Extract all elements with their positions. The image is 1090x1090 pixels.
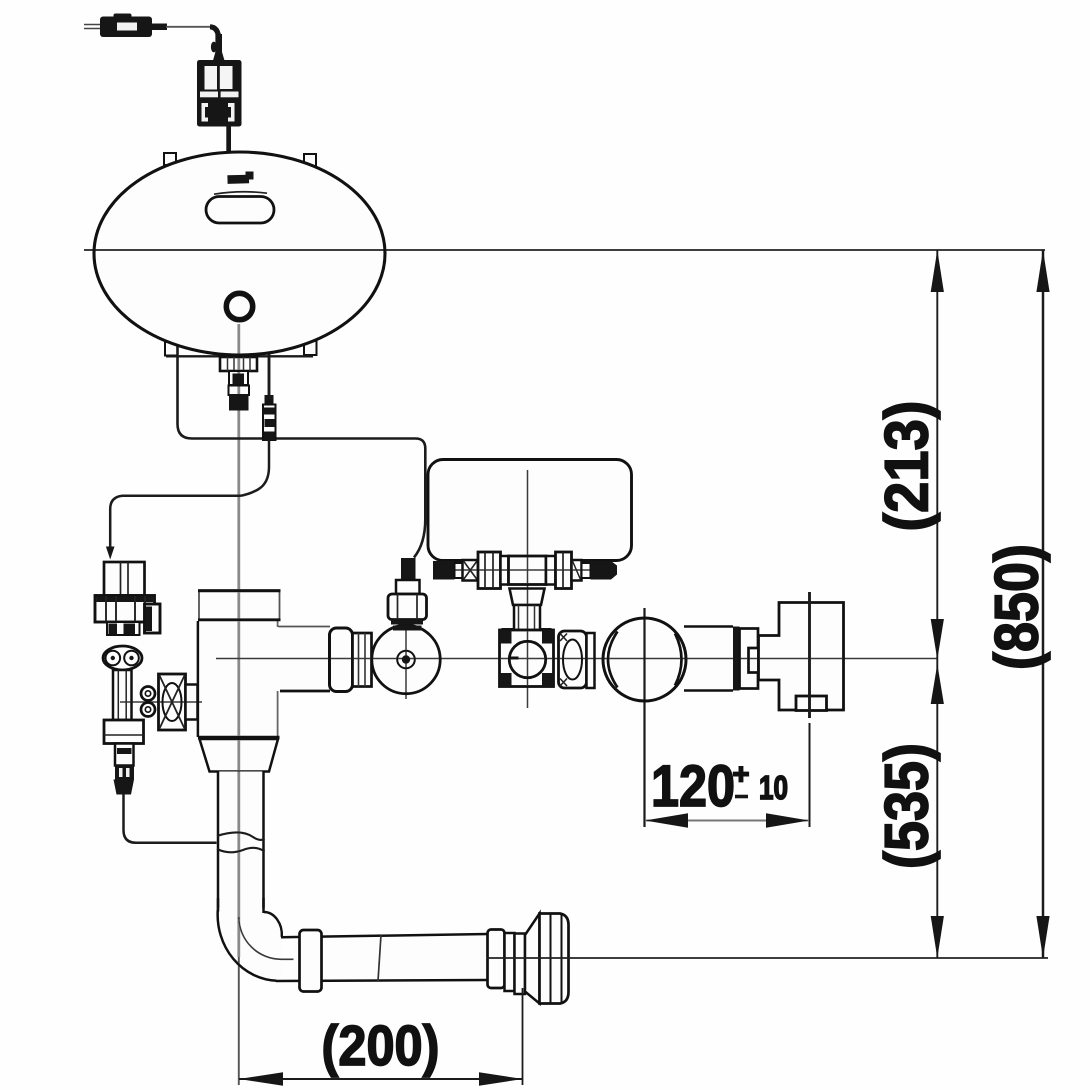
breaker row centerline (433, 569, 617, 571)
bonnet nipple (401, 558, 416, 580)
breaker tee body (509, 556, 547, 585)
breaker union right (572, 560, 582, 581)
packing band (107, 622, 140, 635)
supply threads (115, 766, 134, 780)
label tolerance minus (735, 795, 748, 799)
dimension line (213)/(535) (931, 250, 944, 958)
wire to solenoid valve (110, 440, 269, 547)
breaker band left2 (501, 556, 509, 585)
extension line flange (522, 988, 524, 1085)
dimension 120 line (645, 813, 809, 828)
spud collar (229, 386, 250, 396)
sensor window (206, 197, 274, 224)
pipe coupling band (733, 627, 740, 691)
ball vertical centerline / 120 extension (643, 608, 645, 827)
vacuum breaker body (428, 460, 632, 561)
wire from transformer to sensor cover (226, 127, 231, 154)
wire arrow at solenoid (106, 547, 115, 560)
wall flange step1 (505, 933, 515, 991)
solenoid side outlet (145, 604, 161, 633)
speaker slot arc (228, 172, 254, 180)
horizontal axis centerline (216, 658, 937, 660)
supply collar (104, 720, 144, 744)
dimension line (850) (1036, 250, 1049, 958)
pipe end piece (740, 629, 759, 689)
top reference line (84, 249, 1045, 251)
bonnet collar (396, 580, 420, 594)
breaker pipe dark end right (591, 561, 618, 580)
bonnet hex (388, 594, 427, 620)
spud nut under cover (220, 357, 257, 371)
mounting plate edge below cover (166, 355, 313, 357)
breaker band right1 (546, 556, 556, 585)
outlet washer (587, 633, 595, 688)
angle valve top flanges (502, 628, 552, 642)
main vertical centerline (237, 324, 240, 1085)
cover nut band (353, 633, 372, 687)
spud neck (229, 371, 248, 386)
breaker hex left (478, 552, 501, 589)
svg-text:(200): (200) (322, 1014, 440, 1078)
wall bracket (759, 603, 844, 711)
power cable (166, 27, 225, 61)
outlet union nut (559, 631, 587, 688)
breaker pipe dark end left (433, 561, 455, 580)
breaker band right2 (582, 563, 591, 578)
riser slip joint (217, 832, 265, 852)
angle valve knob (509, 641, 546, 677)
elbow (217, 898, 317, 981)
sensor cable loop to vacuum breaker (behind cover) (178, 340, 426, 558)
stop valve ball (103, 646, 142, 670)
valve body (197, 621, 279, 737)
valve cap (198, 590, 281, 620)
svg-text:(535): (535) (873, 743, 941, 869)
escutcheon ring (300, 930, 322, 992)
bonnet rings (391, 620, 423, 631)
supply neck (115, 744, 134, 766)
breaker hex right (556, 552, 572, 589)
angle valve body (500, 630, 554, 687)
supply pipe to riser (124, 795, 217, 843)
supply end cone (114, 780, 135, 795)
union neck to valve (186, 685, 198, 720)
riser tube (217, 772, 265, 912)
outlet pipe to bracket (684, 627, 733, 691)
dimension (200) (239, 1072, 523, 1085)
bottom reference line (487, 957, 1048, 959)
inlet centerline (120, 701, 202, 703)
solenoid body (104, 562, 145, 596)
diaphragm cover (372, 625, 440, 693)
valve bottom flange (198, 738, 280, 772)
svg-text:120: 120 (651, 754, 735, 819)
svg-text:10: 10 (759, 769, 788, 806)
sensor cable stub to left connector (behind cover) (268, 345, 271, 397)
power plug body (100, 14, 167, 38)
cable arrow at valve bonnet (404, 558, 415, 571)
union coupling nut (159, 674, 186, 730)
breaker tee centerline (527, 470, 529, 708)
button (226, 293, 252, 319)
union rings (141, 687, 155, 717)
ball joint (603, 618, 686, 701)
wall flange ring (488, 930, 505, 989)
breaker pipe band left (455, 563, 463, 578)
svg-text:(850): (850) (983, 544, 1051, 670)
power plug prongs (84, 25, 103, 29)
bracket centerline (808, 592, 811, 827)
tee down collar (510, 589, 545, 606)
svg-text:(213): (213) (873, 401, 941, 532)
breaker union left (463, 560, 479, 581)
wall flange face (540, 914, 569, 1004)
cover screw vertical centerline (405, 624, 407, 699)
horizontal outlet pipe (276, 933, 488, 984)
wall flange step2 (515, 934, 526, 995)
transformer box (197, 60, 242, 127)
mounting tabs behind cover (164, 153, 317, 356)
tee down tube (514, 605, 540, 630)
svg-text:+: + (733, 759, 750, 791)
stop valve stem (113, 670, 132, 720)
bracket clamp tab (796, 696, 827, 711)
solenoid hex nut (95, 596, 155, 623)
cover adapter block (330, 628, 353, 692)
sensor cover ellipse (94, 152, 385, 355)
valve outlet arm (278, 627, 330, 692)
wall flange trumpet (525, 914, 540, 1004)
cover screw (397, 651, 415, 669)
thin arc above sensor window (214, 192, 267, 194)
inline cable connector (263, 395, 276, 440)
spud dark block (229, 395, 249, 411)
